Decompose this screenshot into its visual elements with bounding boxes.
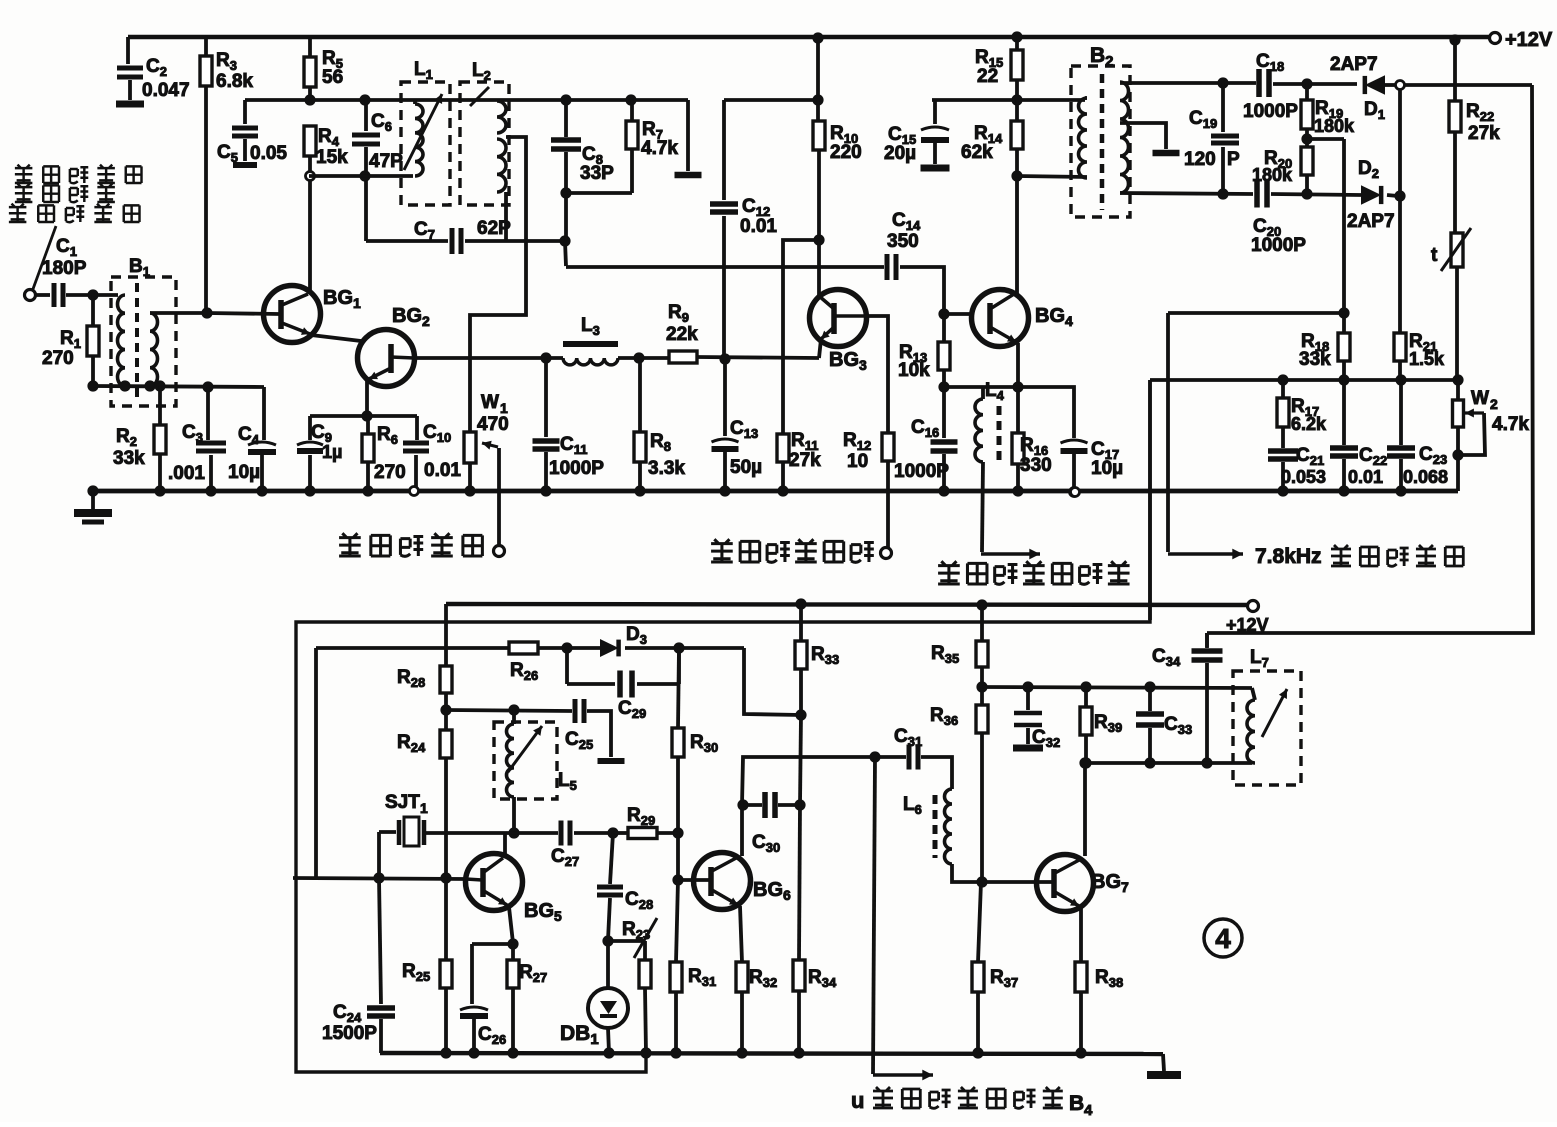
svg-text:270: 270 <box>42 348 74 369</box>
svg-text:4.7k: 4.7k <box>641 138 678 159</box>
svg-text:+12V: +12V <box>1226 615 1269 635</box>
svg-text:120: 120 <box>1184 149 1216 170</box>
svg-text:0.047: 0.047 <box>142 80 190 101</box>
svg-text:2AP7: 2AP7 <box>1330 54 1378 75</box>
svg-text:1.5k: 1.5k <box>1409 349 1445 369</box>
svg-text:22: 22 <box>977 66 998 87</box>
svg-text:4: 4 <box>1084 1102 1093 1119</box>
svg-text:u: u <box>851 1088 864 1113</box>
svg-text:7.8kHz: 7.8kHz <box>1255 545 1322 568</box>
svg-text:27k: 27k <box>789 450 821 471</box>
svg-text:1000P: 1000P <box>1243 101 1298 122</box>
svg-text:0.068: 0.068 <box>1403 467 1448 487</box>
svg-text:62k: 62k <box>961 142 993 163</box>
svg-text:33k: 33k <box>113 448 145 469</box>
svg-text:220: 220 <box>830 142 862 163</box>
svg-text:56: 56 <box>322 67 343 88</box>
svg-text:180k: 180k <box>1314 116 1355 136</box>
svg-text:1000P: 1000P <box>1251 235 1306 256</box>
svg-text:4: 4 <box>1215 923 1231 954</box>
svg-text:W: W <box>481 392 499 413</box>
svg-text:10µ: 10µ <box>1091 458 1123 479</box>
svg-text:10: 10 <box>847 451 868 472</box>
svg-text:270: 270 <box>374 462 406 483</box>
svg-text:22k: 22k <box>666 324 698 345</box>
svg-text:0.01: 0.01 <box>1348 467 1383 487</box>
svg-text:+12V: +12V <box>1505 29 1553 51</box>
svg-text:15k: 15k <box>316 147 348 168</box>
svg-text:1000P: 1000P <box>894 461 949 482</box>
svg-text:330: 330 <box>1020 455 1052 476</box>
svg-text:180k: 180k <box>1252 165 1293 185</box>
svg-text:10µ: 10µ <box>228 462 260 483</box>
svg-text:0.01: 0.01 <box>740 216 777 237</box>
svg-text:33k: 33k <box>1299 349 1331 370</box>
svg-text:33P: 33P <box>580 163 614 184</box>
svg-text:SJT: SJT <box>385 792 420 813</box>
svg-text:10k: 10k <box>898 360 930 381</box>
svg-text:0.053: 0.053 <box>1281 467 1326 487</box>
svg-text:2AP7: 2AP7 <box>1347 211 1395 232</box>
svg-text:2: 2 <box>1490 396 1498 412</box>
svg-text:3.3k: 3.3k <box>648 458 685 479</box>
svg-text:47P: 47P <box>369 151 403 172</box>
svg-text:0.05: 0.05 <box>250 143 287 164</box>
svg-text:W: W <box>1471 388 1489 409</box>
svg-text:.001: .001 <box>168 463 205 484</box>
svg-text:6.2k: 6.2k <box>1291 414 1327 434</box>
svg-text:P: P <box>1227 149 1240 170</box>
svg-text:1000P: 1000P <box>549 458 604 479</box>
svg-text:1500P: 1500P <box>322 1023 377 1044</box>
svg-text:350: 350 <box>887 231 919 252</box>
svg-text:B: B <box>1069 1092 1084 1115</box>
svg-text:62P: 62P <box>477 218 511 239</box>
svg-text:t: t <box>1431 245 1438 266</box>
svg-text:50µ: 50µ <box>730 457 762 478</box>
svg-text:6.8k: 6.8k <box>216 71 253 92</box>
svg-text:0.01: 0.01 <box>424 460 461 481</box>
svg-text:1µ: 1µ <box>322 442 342 462</box>
svg-text:470: 470 <box>477 414 509 435</box>
svg-text:27k: 27k <box>1468 123 1500 144</box>
svg-text:180P: 180P <box>42 258 87 279</box>
svg-text:4.7k: 4.7k <box>1492 414 1529 435</box>
svg-text:1: 1 <box>420 800 428 816</box>
svg-text:20µ: 20µ <box>884 143 916 164</box>
